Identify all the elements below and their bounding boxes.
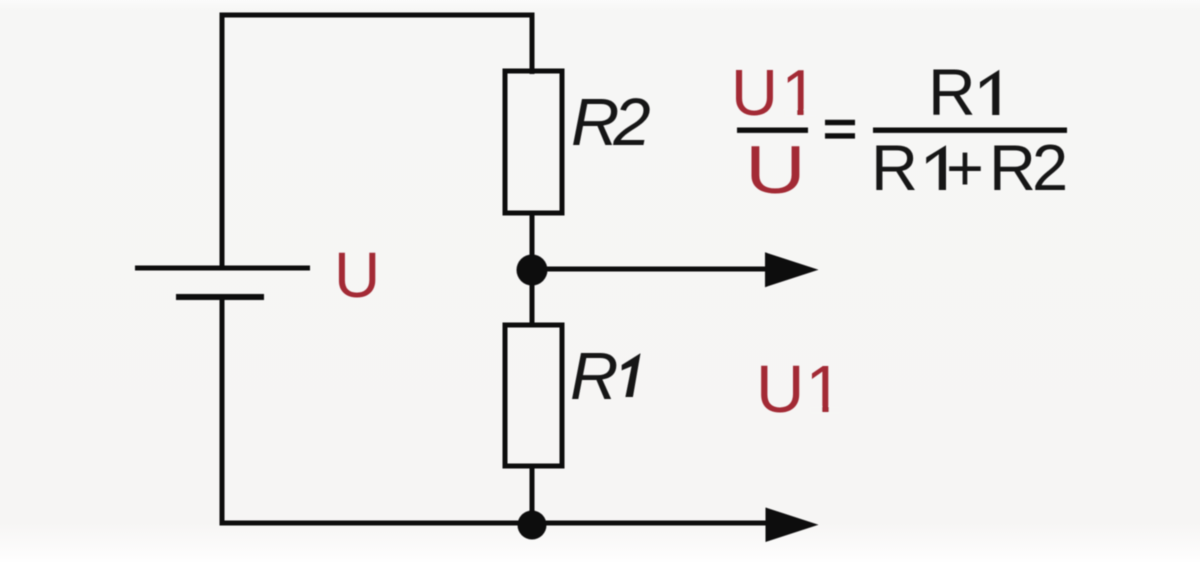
wire: battery + up, across top, down to R2 [222,15,532,268]
wire: R2 to node A [530,213,535,269]
equals sign [825,120,855,125]
wire: node A to middle arrow [532,267,770,272]
arrowhead: bottom output [766,508,819,543]
formula fraction bar left [737,128,808,133]
svg-text:R: R [928,55,976,129]
svg-text:R: R [570,339,618,414]
battery long plate (+) [135,266,310,271]
wire: node A to R1 [530,269,535,325]
formula fraction bar right [873,128,1067,133]
wire: battery - down and along bottom [222,297,772,523]
arrowhead: middle output [765,252,819,287]
svg-text:U: U [334,239,380,311]
node A junction dot [517,255,548,286]
svg-text:U: U [745,133,806,208]
battery short plate (-) [176,294,264,300]
resistor R1 [505,325,562,466]
svg-text:R2: R2 [571,85,650,160]
node B junction dot [518,511,547,540]
svg-text:U1: U1 [756,352,843,427]
svg-text:R+R2: R+R2 [871,131,1068,204]
resistor R2 [505,71,562,213]
wire: R1 to bottom node [530,466,535,524]
svg-text:U1: U1 [731,56,818,129]
